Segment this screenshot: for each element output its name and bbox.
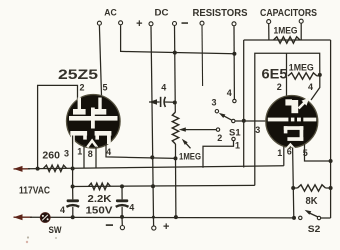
svg-text:1MEG: 1MEG: [274, 26, 298, 37]
junction dot pin4 line x DC-plus: [150, 155, 154, 159]
capacitor C2 (electrolytic): [121, 186, 123, 199]
pot wiper arrow: [179, 127, 186, 131]
svg-text:SW: SW: [49, 225, 62, 236]
wire 6E5 pin1 lead: [283, 147, 285, 166]
terminal output minus: [121, 217, 123, 226]
wire 25Z5 pin4 lead L to right: [106, 144, 176, 159]
resistor 260: [44, 165, 67, 171]
6E5 bottom caret: [287, 144, 295, 148]
terminal CAPACITORS-1: [267, 20, 271, 24]
scan speck: [27, 236, 29, 238]
junction dot 2.2K x cap2: [120, 184, 124, 188]
svg-text:25Z5: 25Z5: [58, 67, 99, 82]
svg-text:4: 4: [129, 202, 134, 212]
switch S1 contact 1: [232, 137, 235, 140]
25Z5 plate right (white T): [98, 98, 101, 110]
6E5 top stem with foot: [285, 99, 292, 105]
wire 25Z5 pin8 lead down: [95, 147, 97, 169]
25Z5 cathode right (white hook): [95, 131, 112, 136]
junction dot bus DC-minus: [173, 51, 177, 55]
25Z5 bottom caret: [87, 141, 97, 148]
wire bus horizontal: [120, 51, 234, 53]
wire pot bottom lead: [175, 144, 177, 158]
junction dot 2.2K left: [71, 185, 75, 189]
svg-text:2.2K: 2.2K: [88, 194, 113, 205]
resistor 1MEG (grid, inner): [288, 73, 317, 79]
wire 6E5 pin5 lead L-right: [305, 144, 331, 161]
svg-text:6E5: 6E5: [262, 67, 289, 82]
wire S1 contact1 to heater line: [203, 141, 234, 168]
wire outer-left vertical: [243, 40, 245, 168]
pot adjust arrow: [182, 139, 188, 145]
junction dot heater x pin3: [71, 167, 75, 171]
svg-text:S1: S1: [229, 127, 241, 138]
wire 25Z5 pin1 lead down: [83, 145, 85, 169]
25Z5 plate left (white T): [78, 98, 81, 110]
svg-text:1MEG: 1MEG: [179, 151, 201, 162]
svg-text:3: 3: [255, 125, 260, 135]
wire AC2 down to bus: [120, 25, 122, 51]
switch S1 contact 3: [215, 110, 218, 113]
terminal output plus: [152, 226, 156, 230]
svg-text:3: 3: [64, 148, 69, 158]
junction dot rail x C2/minus: [120, 215, 124, 219]
junction dot 8K left: [291, 186, 295, 190]
resistor 1MEG (top): [274, 37, 301, 43]
terminal AC-2: [119, 21, 123, 25]
svg-text:260: 260: [42, 151, 60, 162]
wire bottom rail: [30, 216, 294, 219]
junction dot pot bottom: [174, 156, 178, 160]
switch S1 contact 2: [216, 128, 219, 131]
svg-text:3: 3: [211, 98, 216, 108]
terminal DC-minus: [173, 22, 177, 26]
junction dot DC-minus x cap: [173, 101, 177, 105]
junction dot pin5 x outer-right: [329, 159, 333, 163]
wire inner loop: [255, 53, 320, 185]
svg-text:1: 1: [277, 148, 282, 158]
junction dot 2.2K x DC-plus: [151, 184, 155, 188]
switch S1 pivot and arm: [232, 119, 235, 122]
svg-text:4: 4: [60, 205, 65, 215]
scan speck: [26, 241, 28, 243]
svg-text:8: 8: [88, 149, 93, 159]
junction dot heater x pin2 branch: [36, 167, 40, 171]
svg-text:6: 6: [287, 147, 292, 157]
terminal RESISTORS-1: [200, 21, 204, 25]
svg-text:CAPACITORS: CAPACITORS: [260, 8, 317, 19]
wire DC-minus vertical top: [174, 26, 177, 112]
wire 6E5 pin2 vertical: [286, 53, 288, 97]
arrow 117VAC top: [14, 166, 23, 172]
svg-text:150V: 150V: [86, 205, 113, 216]
switch S2: [299, 216, 302, 219]
junction dot 8K right: [329, 186, 333, 190]
6E5 dashed grid bar: [268, 118, 289, 122]
capacitor with arrow (filter cap tap): [149, 99, 157, 105]
minus sign output: [106, 224, 113, 226]
wire S1 pole to 6E5 pin3: [235, 120, 266, 122]
junction dot rail x plus stem: [152, 216, 155, 219]
junction dot rail x DC-minus: [174, 215, 178, 219]
junction dot inner 1MEG right: [318, 73, 322, 77]
svg-text:DC: DC: [155, 8, 169, 19]
terminal DC-plus: [149, 22, 153, 26]
svg-text:2: 2: [79, 82, 84, 92]
svg-text:+: +: [163, 221, 169, 233]
terminal RESISTORS-2: [232, 22, 236, 26]
resistor 8K: [293, 187, 297, 189]
svg-text:S2: S2: [308, 224, 321, 235]
svg-text:+: +: [136, 18, 142, 30]
svg-text:4: 4: [227, 88, 232, 98]
terminal AC-1: [97, 21, 101, 25]
svg-text:5: 5: [102, 83, 107, 93]
wire CAP terminal leads: [268, 24, 270, 40]
wire 25Z5 pin2 L-shape to 117VAC top line: [38, 85, 78, 168]
svg-text:RESISTORS: RESISTORS: [193, 8, 248, 19]
6E5 target arrow: [299, 102, 306, 109]
wire outer-right vertical: [330, 40, 332, 218]
svg-text:4: 4: [308, 82, 313, 92]
wire RESISTORS-1 vertical (fades): [201, 26, 204, 86]
svg-text:4: 4: [161, 82, 166, 92]
tube 25Z5 envelope: [67, 95, 121, 149]
wire S2 right to outer-right: [321, 217, 331, 219]
25Z5 center cross: [69, 116, 118, 121]
wire 2.2K line: [73, 185, 255, 186]
wire RESISTORS-2 vertical to S1 contact 4: [233, 26, 235, 99]
wire 25Z5 pin3 lead down: [72, 136, 74, 187]
arrow 117VAC bottom: [14, 214, 23, 220]
25Z5 cathode left (white hook): [70, 131, 87, 136]
svg-text:5: 5: [303, 148, 308, 158]
terminal CAPACITORS-2: [299, 19, 303, 23]
svg-text:2: 2: [217, 133, 222, 143]
svg-text:8K: 8K: [306, 196, 319, 207]
wire DC-plus vertical: [151, 26, 154, 226]
wire 6E5 pin6 lead down: [293, 148, 294, 218]
junction dot bus end: [232, 52, 236, 56]
resistor 2.2K: [89, 183, 111, 189]
6E5 cathode bracket: [284, 126, 304, 130]
junction dot rail right end: [292, 216, 296, 220]
svg-text:1: 1: [235, 141, 240, 151]
capacitor C1 (electrolytic): [72, 187, 74, 200]
junction dot pole x outer-left: [242, 119, 246, 123]
svg-text:4: 4: [106, 147, 111, 157]
wire heater line (117VAC to 6E5 pin1): [28, 166, 284, 169]
minus sign DC: [182, 22, 189, 24]
scan speck: [55, 237, 57, 239]
potentiometer 1MEG vertical: [172, 112, 178, 144]
svg-text:117VAC: 117VAC: [19, 185, 50, 196]
junction dot rail x C1: [71, 215, 75, 219]
svg-text:AC: AC: [104, 8, 117, 19]
wire AC1 to 25Z5 pin 5: [99, 26, 101, 96]
tube 6E5 envelope: [266, 96, 318, 148]
wire pin4 diagonal entry: [311, 75, 320, 100]
switch SW: [40, 213, 50, 223]
svg-text:1: 1: [77, 146, 82, 156]
svg-text:2: 2: [277, 82, 282, 92]
svg-text:1MEG: 1MEG: [289, 63, 314, 74]
switch S1 contact 4: [233, 99, 236, 102]
wire top 1MEG line with corners: [244, 39, 331, 41]
wire pot down through to rail: [175, 158, 177, 217]
